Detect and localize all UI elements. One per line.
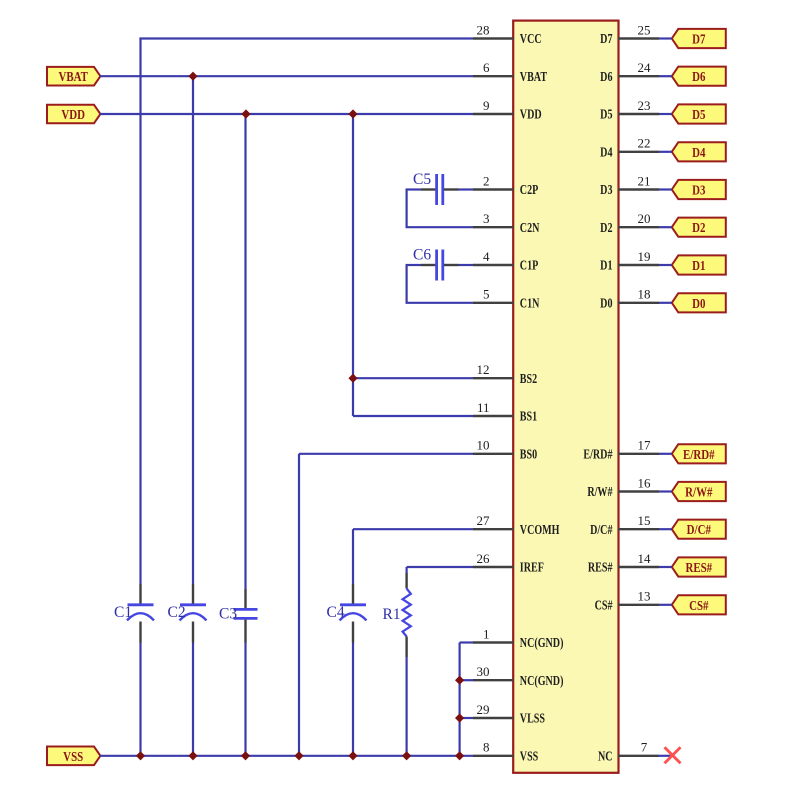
wire IREF row (407, 566, 473, 568)
svg-text:C4: C4 (327, 604, 345, 621)
pin 1 NC(GND) (473, 626, 563, 650)
svg-text:VBAT: VBAT (520, 68, 547, 84)
junction VBAT-C2 (188, 72, 197, 81)
svg-text:D3: D3 (692, 182, 705, 198)
svg-text:19: 19 (638, 249, 651, 264)
svg-text:11: 11 (477, 400, 490, 415)
svg-text:D2: D2 (692, 220, 705, 236)
pin 8 VSS (473, 740, 538, 764)
svg-text:R1: R1 (383, 606, 401, 623)
capacitor C2 (168, 584, 207, 643)
wire to tag D0 (659, 302, 672, 304)
junction VDD-BS (348, 109, 357, 118)
wire C1P to C6 (406, 264, 474, 266)
pin 7 NC (598, 740, 659, 764)
pin 13 CS# (595, 589, 659, 613)
net tag CS# (672, 595, 726, 614)
net tag R/W# (672, 482, 726, 501)
wire NC(GND) VLSS vertical (459, 643, 461, 756)
wire C3 branch vertical (244, 114, 246, 756)
svg-text:22: 22 (638, 136, 651, 151)
svg-text:C2N: C2N (520, 219, 540, 235)
svg-text:VCC: VCC (520, 31, 542, 47)
svg-text:D5: D5 (600, 106, 612, 122)
svg-text:D7: D7 (692, 31, 705, 47)
wire BS0 row (299, 453, 473, 455)
svg-text:5: 5 (483, 287, 490, 302)
svg-text:D/C#: D/C# (687, 522, 712, 538)
svg-text:VCOMH: VCOMH (520, 521, 560, 537)
svg-text:26: 26 (477, 551, 491, 566)
svg-text:D0: D0 (692, 296, 705, 312)
wire C2 branch vertical (192, 76, 194, 756)
pin 24 D6 (600, 60, 659, 84)
pin 30 NC(GND) (473, 664, 563, 688)
pin 23 D5 (600, 98, 659, 122)
svg-text:C2: C2 (168, 604, 186, 621)
svg-text:C1P: C1P (520, 257, 539, 273)
svg-text:C2P: C2P (520, 182, 539, 198)
pin 11 BS1 (473, 400, 537, 424)
wire to tag D7 (659, 37, 672, 39)
svg-text:VSS: VSS (520, 748, 539, 764)
junction VSS-C3 (241, 751, 250, 760)
junction VSS-C1 (136, 751, 145, 760)
svg-text:D1: D1 (692, 258, 705, 274)
net tag RES# (672, 557, 726, 576)
junction VSS-VLSS (455, 751, 464, 760)
wire BS1 row (353, 415, 473, 417)
no-connect X on pin 7 (665, 747, 681, 763)
svg-text:VDD: VDD (520, 106, 542, 122)
net tag D1 (672, 255, 726, 274)
pin 22 D4 (600, 136, 659, 160)
net tag E/RD# (672, 444, 726, 463)
wire to tag R/W# (659, 490, 672, 492)
wire C1 branch vertical (139, 39, 141, 756)
net tag D5 (672, 104, 726, 123)
wire to tag D4 (659, 151, 672, 153)
svg-text:E/RD#: E/RD# (583, 446, 612, 462)
wire to tag RES# (659, 566, 672, 568)
net tag D3 (672, 180, 726, 199)
capacitor C3 (219, 589, 258, 643)
pin 4 C1P (473, 249, 539, 273)
svg-text:30: 30 (477, 664, 490, 679)
wire to tag CS# (659, 604, 672, 606)
capacitor C4 (327, 584, 367, 643)
svg-text:16: 16 (638, 475, 652, 490)
pin 15 D/C# (590, 513, 659, 537)
wire C5 loop vertical (406, 190, 408, 228)
capacitor C1 (114, 584, 154, 643)
svg-text:14: 14 (638, 551, 652, 566)
pin 3 C2N (473, 211, 540, 235)
svg-text:C5: C5 (413, 171, 431, 188)
wire NC pin 7 stub (658, 755, 672, 757)
svg-text:6: 6 (483, 60, 490, 75)
pin 26 IREF (473, 551, 544, 575)
capacitor C6 (413, 247, 459, 281)
net tag VSS (47, 747, 100, 766)
wire BS0 to VSS vertical (298, 454, 300, 756)
svg-text:23: 23 (638, 98, 651, 113)
wire VDD to BS1 vertical (352, 114, 354, 416)
svg-text:1: 1 (483, 626, 490, 641)
svg-text:R/W#: R/W# (685, 484, 713, 500)
svg-text:10: 10 (477, 438, 490, 453)
net tag D0 (672, 293, 726, 312)
svg-text:18: 18 (638, 287, 651, 302)
svg-text:29: 29 (477, 702, 490, 717)
net tag VBAT (47, 67, 100, 86)
pin 27 VCOMH (473, 513, 560, 537)
svg-text:D/C#: D/C# (590, 521, 612, 537)
pin 9 VDD (473, 98, 542, 122)
svg-text:D4: D4 (600, 144, 612, 160)
IC U1 body (513, 21, 618, 773)
junction VDD-C3 (241, 109, 250, 118)
junction BS2 (348, 374, 357, 383)
svg-text:20: 20 (638, 211, 651, 226)
wire C6 loop vertical (406, 265, 408, 303)
pin 14 RES# (588, 551, 659, 575)
svg-text:28: 28 (477, 22, 490, 37)
wire to tag D/C# (659, 528, 672, 530)
svg-text:13: 13 (638, 589, 651, 604)
pin 21 D3 (600, 173, 659, 197)
wire C2P to C5 (406, 188, 474, 190)
svg-text:C6: C6 (413, 247, 431, 264)
svg-text:2: 2 (483, 173, 490, 188)
pin 6 VBAT (473, 60, 547, 84)
junction VSS-R1 (402, 751, 411, 760)
wire VSS rail horizontal (100, 755, 473, 757)
svg-text:25: 25 (638, 22, 651, 37)
svg-text:D0: D0 (600, 295, 612, 311)
svg-text:E/RD#: E/RD# (683, 447, 715, 463)
svg-text:21: 21 (638, 173, 651, 188)
pin 29 VLSS (473, 702, 545, 726)
svg-text:BS1: BS1 (520, 408, 537, 424)
svg-text:NC(GND): NC(GND) (520, 635, 564, 651)
pin 16 R/W# (587, 475, 659, 499)
svg-text:RES#: RES# (685, 560, 712, 576)
svg-text:CS#: CS# (595, 597, 613, 613)
svg-text:27: 27 (477, 513, 491, 528)
svg-text:8: 8 (483, 740, 490, 755)
net tag D2 (672, 218, 726, 237)
wire VCOMH to C4 vertical (352, 529, 354, 756)
svg-text:12: 12 (477, 362, 490, 377)
svg-text:C1N: C1N (520, 295, 540, 311)
svg-text:NC: NC (598, 748, 613, 764)
svg-text:7: 7 (641, 740, 648, 755)
wire VCC rail horizontal (139, 37, 473, 39)
junction VLSS (455, 713, 464, 722)
svg-text:24: 24 (638, 60, 652, 75)
pin 5 C1N (473, 287, 540, 311)
pin 25 D7 (600, 22, 659, 46)
capacitor C5 (413, 171, 459, 205)
svg-text:CS#: CS# (689, 598, 709, 614)
svg-text:D3: D3 (600, 182, 612, 198)
net tag D6 (672, 67, 726, 86)
svg-text:C3: C3 (219, 606, 237, 623)
junction NC30 (455, 676, 464, 685)
net tag VDD (47, 105, 100, 124)
svg-text:D5: D5 (692, 107, 705, 123)
wire BS2 row (353, 377, 473, 379)
pin 12 BS2 (473, 362, 537, 386)
pin 20 D2 (600, 211, 659, 235)
svg-text:IREF: IREF (520, 559, 544, 575)
svg-text:3: 3 (483, 211, 490, 226)
wire IREF to R1 vertical (406, 567, 408, 756)
wire to tag D5 (659, 113, 672, 115)
pin 18 D0 (600, 287, 659, 311)
pin 2 C2P (473, 173, 539, 197)
wire C1N row (406, 302, 474, 304)
wire to tag D2 (659, 226, 672, 228)
svg-text:4: 4 (483, 249, 490, 264)
svg-text:BS0: BS0 (520, 446, 537, 462)
svg-text:VSS: VSS (63, 749, 83, 765)
pin 17 E/RD# (583, 438, 659, 462)
junction VSS-BS0 (294, 751, 303, 760)
wire to tag D3 (659, 188, 672, 190)
svg-text:D7: D7 (600, 31, 612, 47)
pin 19 D1 (600, 249, 659, 273)
svg-text:VLSS: VLSS (520, 710, 545, 726)
svg-text:17: 17 (638, 438, 652, 453)
junction VSS-C2 (188, 751, 197, 760)
wire to tag D6 (659, 75, 672, 77)
svg-text:D6: D6 (692, 69, 705, 85)
net tag D4 (672, 142, 726, 161)
svg-text:VDD: VDD (61, 107, 85, 123)
svg-text:C1: C1 (114, 604, 132, 621)
svg-text:15: 15 (638, 513, 651, 528)
svg-text:RES#: RES# (588, 559, 613, 575)
wire VLSS row (460, 717, 473, 719)
svg-text:9: 9 (483, 98, 490, 113)
resistor R1 (383, 573, 411, 657)
svg-text:D1: D1 (600, 257, 612, 273)
svg-text:R/W#: R/W# (587, 484, 612, 500)
svg-text:NC(GND): NC(GND) (520, 672, 564, 688)
svg-text:D6: D6 (600, 68, 612, 84)
svg-text:VBAT: VBAT (58, 69, 88, 85)
pin 28 VCC (473, 22, 542, 46)
wire NC(GND)30 row (460, 679, 473, 681)
net tag D7 (672, 29, 726, 48)
svg-text:D2: D2 (600, 219, 612, 235)
pin 10 BS0 (473, 438, 537, 462)
svg-text:D4: D4 (692, 145, 706, 161)
svg-text:BS2: BS2 (520, 370, 537, 386)
wire VBAT rail horizontal (100, 75, 473, 77)
wire to tag E/RD# (659, 453, 672, 455)
wire VDD rail horizontal (100, 113, 473, 115)
wire NC(GND)1 row (460, 641, 473, 643)
junction VSS-C4 (348, 751, 357, 760)
wire C2N row (406, 226, 474, 228)
wire VCOMH row (353, 528, 473, 530)
net tag D/C# (672, 520, 726, 539)
wire to tag D1 (659, 264, 672, 266)
